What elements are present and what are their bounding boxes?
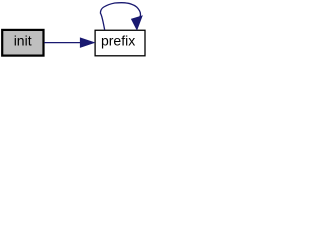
- arrowhead prefix->prefix self loop: [132, 16, 142, 30]
- node prefix: [95, 30, 145, 56]
- edge prefix->prefix self loop (wire): [100, 3, 140, 30]
- svg-text:init: init: [14, 32, 32, 48]
- node init (current node, grey fill, bold border): [2, 30, 43, 56]
- edge init->prefix (wire): [44, 42, 81, 44]
- svg-text:prefix: prefix: [101, 32, 135, 48]
- arrowhead init->prefix: [80, 38, 94, 47]
